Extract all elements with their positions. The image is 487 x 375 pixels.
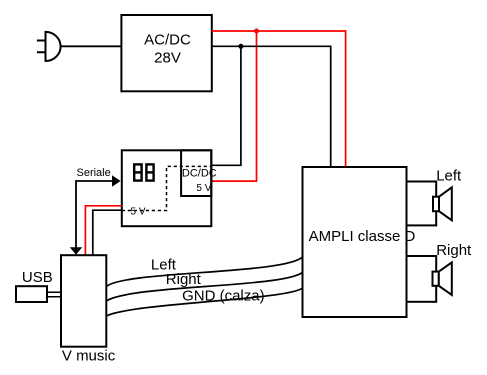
wire Right audio [106,272,302,301]
connector J1 pin block B [146,164,153,180]
wire GND (calza) [106,288,302,316]
wire black branch: junction to DC/DC input [211,46,241,165]
speaker stub right [407,256,437,302]
AMPLI classe D box U4 [303,167,407,317]
wire plug to AC/DC [61,45,122,47]
speaker LS2 Right [433,272,439,286]
speaker LS1 Left [433,197,439,212]
speaker stub left [407,182,437,226]
svg-text:Right: Right [436,242,472,259]
DC/DC converter box U2 [122,150,212,226]
svg-text:5 V: 5 V [196,183,211,194]
wire red: V music to DC/DC [85,206,121,256]
V music box U3 [61,255,106,347]
svg-text:AC/DC: AC/DC [144,32,191,49]
node black junction [238,44,243,49]
svg-text:28V: 28V [154,50,181,67]
wire red branch: junction to DC/DC 5V input [211,31,256,181]
wire +28V red: AC/DC to AMPLI [212,31,346,167]
AC/DC 28V power supply U1 [121,15,211,91]
dashed net -5V path [122,166,211,210]
DC/DC 5V module sub-box [181,150,211,196]
wire Seriale link (two arrowheads) [76,181,113,248]
connector J2 USB plug [16,286,47,302]
wire black: V music to DC/DC -5V [93,210,122,256]
svg-text:Right: Right [166,271,202,288]
svg-text:DC/DC: DC/DC [182,167,217,179]
svg-text:GND (calza): GND (calza) [182,287,265,304]
wire Left audio [106,257,302,287]
svg-text:AMPLI classe D: AMPLI classe D [309,228,416,245]
svg-text:USB: USB [22,269,53,286]
svg-text:Left: Left [436,167,462,184]
svg-text:V music: V music [62,347,116,364]
connector J1 pin block A [134,164,141,180]
svg-text:Seriale: Seriale [77,167,111,179]
plug P1 (mains plug) [37,32,61,61]
node red junction [254,29,259,34]
wire GND black: AC/DC to AMPLI [212,46,331,167]
svg-text:5 V: 5 V [131,207,146,218]
